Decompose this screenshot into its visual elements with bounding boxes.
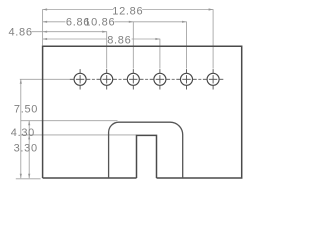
- centerline dash between hole 4 and 5: [172, 78, 175, 80]
- wire: extension line above hole 6: [212, 9, 214, 68]
- svg-text:10.86: 10.86: [84, 16, 115, 28]
- wire: extension line above hole 4: [159, 39, 161, 69]
- svg-text:4.86: 4.86: [8, 27, 32, 39]
- svg-text:8.86: 8.86: [107, 34, 131, 46]
- hole H1 circle: [74, 73, 86, 85]
- hole H3 circle: [127, 73, 139, 85]
- hole H6 circle: [207, 73, 219, 85]
- wire: extension line above hole 2: [106, 31, 108, 68]
- dimension 4.30 / 3.30 line: [28, 121, 30, 179]
- svg-text:4.30: 4.30: [11, 127, 35, 139]
- svg-text:3.30: 3.30: [14, 142, 38, 154]
- wire: extension line of hole centerline to the left: [20, 78, 70, 80]
- hole H5 circle: [181, 73, 193, 85]
- dimension 6.86 / 10.86 line: [43, 21, 187, 23]
- dimension 7.50 line: [20, 79, 22, 178]
- wire: extension line from plate left edge (vertical): [42, 9, 44, 45]
- hole H3 crosshair: [123, 69, 143, 89]
- hole H1 crosshair: [70, 69, 90, 89]
- wire: extension line of bump top to the left: [21, 120, 118, 122]
- hole H2 circle: [101, 73, 113, 85]
- centerline dash between hole 3 and 4: [145, 78, 148, 80]
- wire: extension line of slot top to the left: [21, 134, 137, 136]
- wire: extension line above hole 3: [132, 22, 134, 69]
- svg-text:7.50: 7.50: [14, 103, 38, 115]
- wire: extension line above hole 5: [186, 22, 188, 69]
- centerline dash between hole 5 and 6: [198, 78, 201, 80]
- wire: extension line of bottom edge to the left: [16, 178, 41, 180]
- hole H5 crosshair: [176, 69, 196, 89]
- svg-text:12.86: 12.86: [112, 5, 143, 17]
- dimension 8.86 line: [43, 38, 160, 40]
- plate outline: [43, 46, 242, 178]
- hole H2 crosshair: [97, 69, 117, 89]
- centerline dash between hole 2 and 3: [119, 78, 122, 80]
- dimension 12.86 line: [43, 9, 214, 11]
- hole H4 crosshair: [150, 69, 170, 89]
- centerline dash between hole 1 and 2: [92, 78, 95, 80]
- hole H4 circle: [154, 73, 166, 85]
- dimension 4.86 line: [32, 31, 107, 33]
- slot outline: [137, 135, 157, 178]
- hole H6 crosshair: [203, 69, 223, 89]
- bump outline with fillets: [109, 122, 183, 178]
